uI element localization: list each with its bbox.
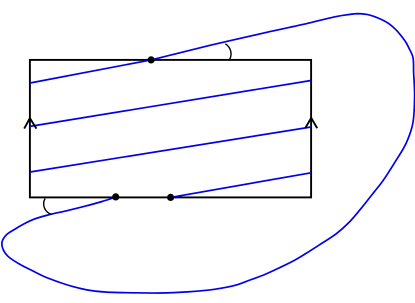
dot on top edge <box>148 56 155 63</box>
trajectory line L3 <box>30 127 311 172</box>
dot B1 on bottom edge <box>112 193 119 200</box>
arrow on right edge <box>305 118 317 128</box>
dot B2 on bottom edge <box>167 194 174 201</box>
angle arc at bottom-left dot <box>44 199 52 215</box>
arrow on left edge <box>24 118 36 129</box>
angle arc at top dot <box>225 44 231 60</box>
trajectory line L1 <box>30 60 151 83</box>
rectangle (fundamental domain) <box>30 60 311 198</box>
trajectory line L2 <box>30 81 311 127</box>
trajectory line L4 <box>171 173 311 198</box>
